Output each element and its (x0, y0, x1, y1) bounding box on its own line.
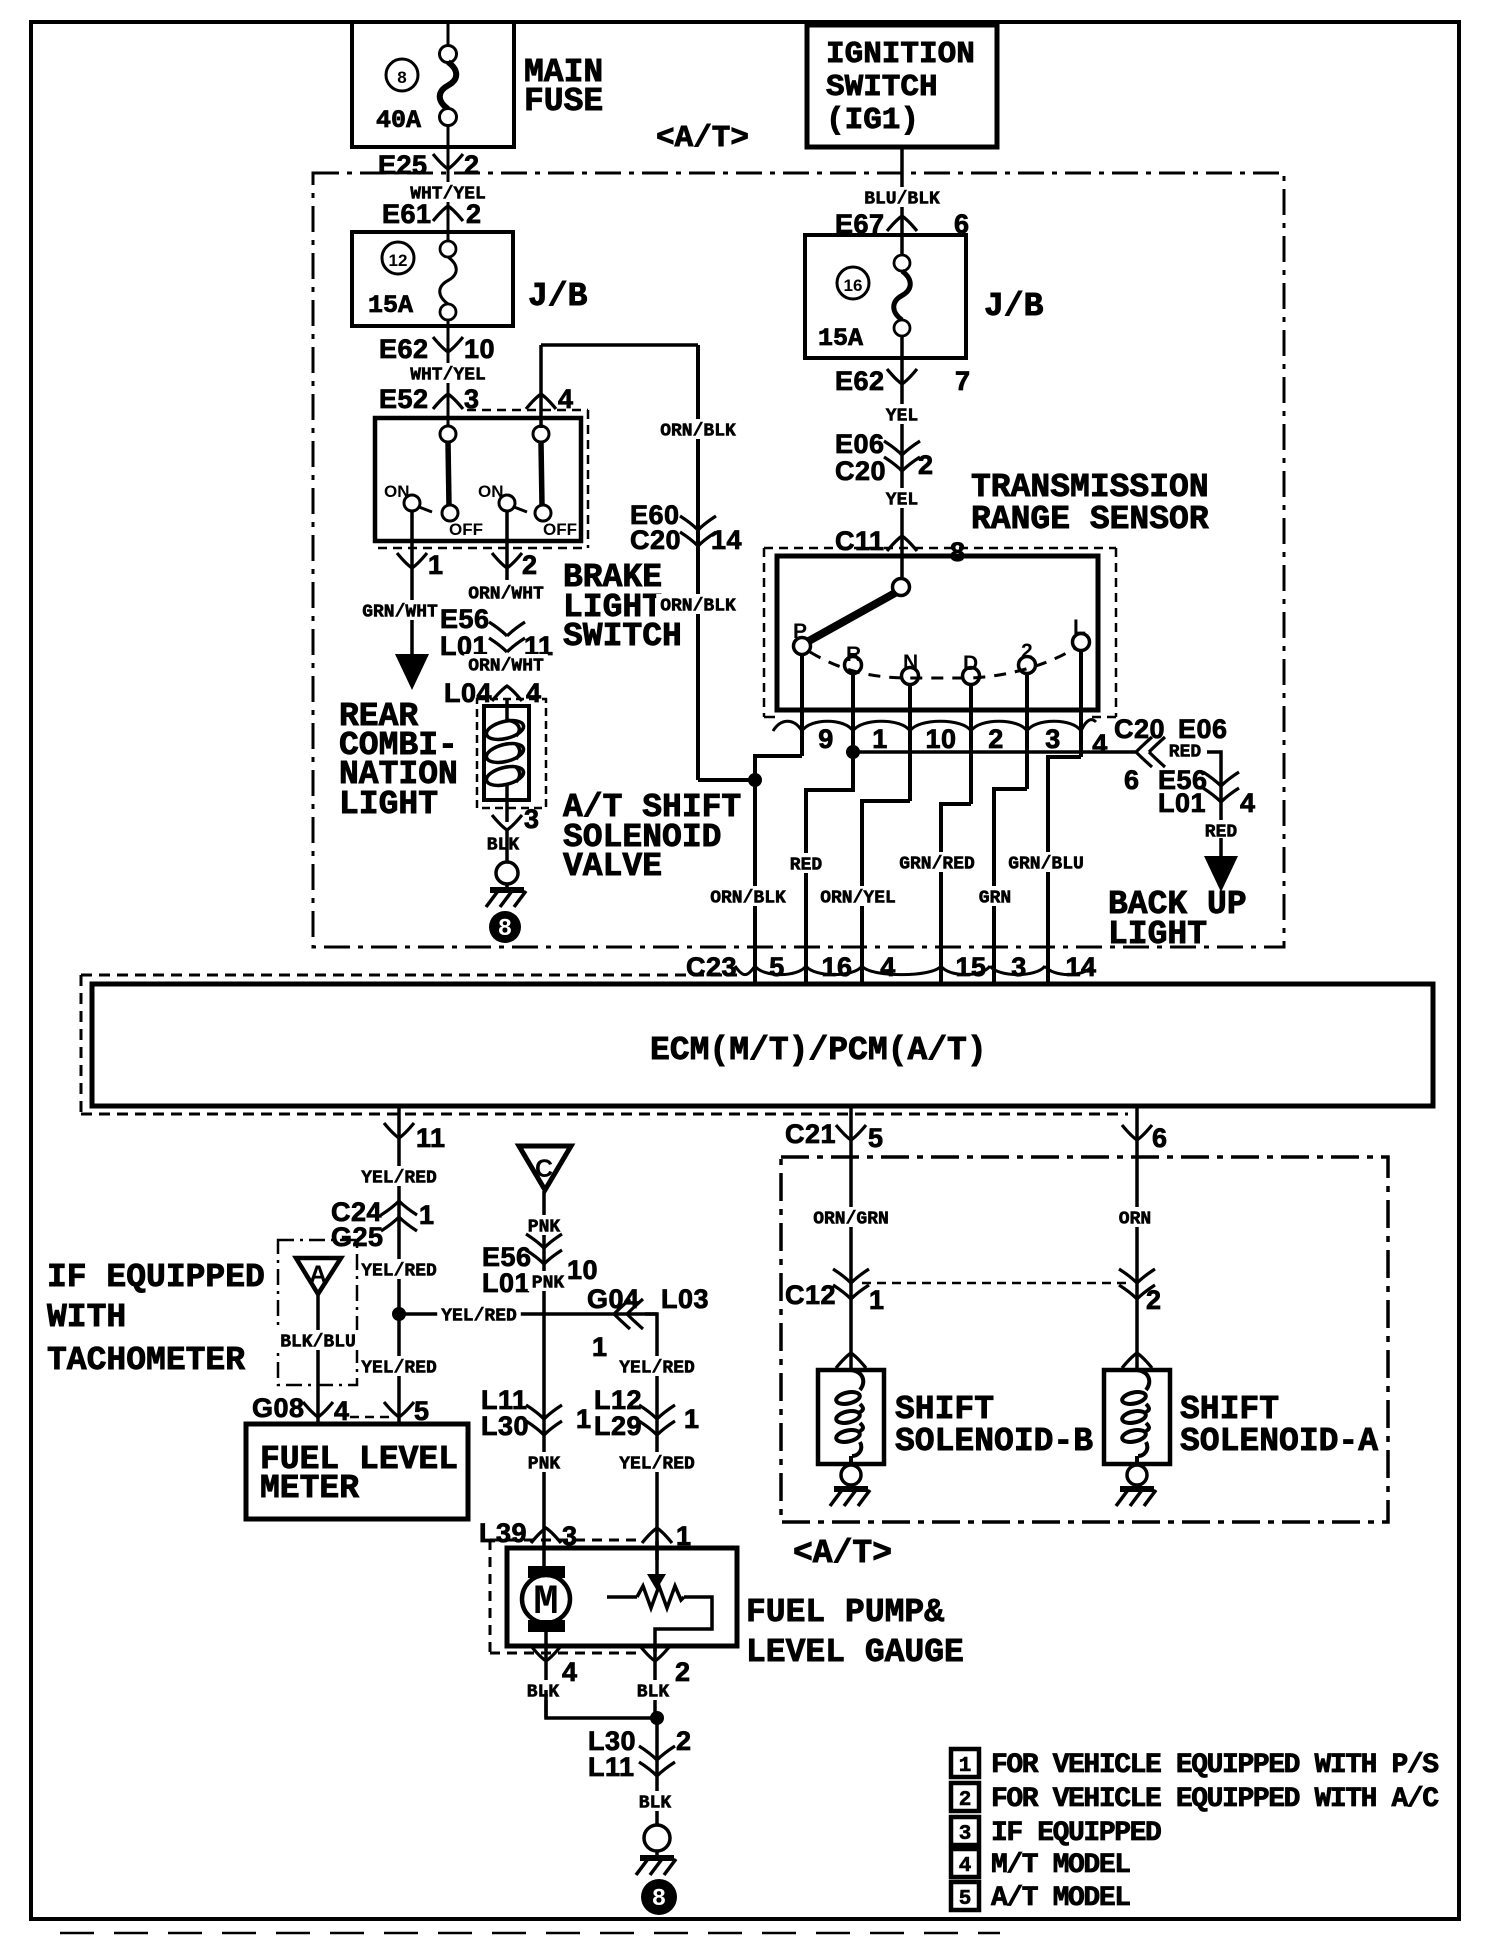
svg-text:LIGHT: LIGHT (1108, 916, 1207, 953)
svg-text:SOLENOID-B: SOLENOID-B (895, 1423, 1093, 1460)
svg-text:8: 8 (652, 1886, 666, 1913)
svg-text:1: 1 (419, 1200, 435, 1230)
A/T dash-dot box (781, 1157, 1388, 1522)
legend item 3 (951, 1817, 979, 1845)
svg-text:E52: E52 (379, 384, 429, 414)
wire label GRN/BLU (1004, 852, 1088, 872)
svg-text:8: 8 (950, 537, 966, 567)
wire pin 10 jog to C23-4 (862, 801, 910, 984)
svg-text:L29: L29 (594, 1411, 642, 1441)
svg-text:L11: L11 (588, 1752, 635, 1782)
svg-text:PNK: PNK (528, 1455, 561, 1475)
solenoid B coil (851, 1370, 863, 1390)
svg-text:M/T MODEL: M/T MODEL (991, 1850, 1130, 1881)
junction dot YEL/RED (392, 1307, 406, 1321)
svg-text:12: 12 (389, 251, 408, 270)
svg-text:VALVE: VALVE (563, 848, 662, 885)
svg-text:15A: 15A (368, 291, 413, 320)
svg-text:IGNITION: IGNITION (826, 37, 975, 72)
svg-text:ORN/BLK: ORN/BLK (710, 889, 786, 909)
wire PNK down (542, 1191, 546, 1566)
wire label BLK (635, 1791, 675, 1811)
wire label GRN (975, 886, 1015, 906)
svg-text:2: 2 (676, 1726, 692, 1756)
wire to arrow (1219, 838, 1223, 858)
svg-text:J/B: J/B (528, 278, 588, 315)
svg-text:TACHOMETER: TACHOMETER (47, 1342, 245, 1379)
svg-text:4: 4 (562, 1657, 578, 1687)
position 2 contact (1019, 657, 1036, 674)
svg-text:5: 5 (868, 1123, 884, 1153)
svg-text:BLK/BLU: BLK/BLU (280, 1333, 356, 1353)
svg-text:3: 3 (1045, 724, 1061, 754)
svg-text:BLK: BLK (527, 1683, 560, 1703)
wire brake switch pin4 branch up and over (539, 345, 543, 428)
svg-text:YEL/RED: YEL/RED (619, 1455, 695, 1475)
svg-text:E06: E06 (835, 429, 885, 459)
wire RED to back up light (853, 750, 1136, 754)
svg-text:P: P (793, 620, 807, 643)
svg-text:C20: C20 (835, 456, 886, 486)
dashed selector arc (810, 648, 1075, 678)
svg-text:<A/T>: <A/T> (656, 121, 749, 156)
svg-text:E56: E56 (440, 604, 490, 634)
svg-text:11: 11 (416, 1123, 446, 1153)
wire label ORN/WHT (464, 654, 548, 674)
svg-text:10: 10 (925, 724, 956, 754)
wire ORN/WHT from switch pin 2 (464, 582, 548, 602)
legend item 2 (951, 1783, 979, 1811)
legend item 1 (951, 1749, 979, 1777)
wire label YEL/RED (615, 1452, 699, 1472)
dashed link C12 (862, 1282, 1126, 1285)
svg-text:2: 2 (466, 199, 482, 229)
svg-text:2: 2 (1021, 640, 1033, 663)
svg-text:ORN/BLK: ORN/BLK (660, 597, 736, 617)
svg-text:5: 5 (959, 1888, 972, 1911)
junction dot BLK (650, 1711, 664, 1725)
svg-text:E62: E62 (379, 334, 429, 364)
wire label ORN/GRN (809, 1207, 893, 1227)
svg-text:16: 16 (821, 952, 852, 982)
svg-text:10: 10 (567, 1255, 598, 1285)
svg-text:16: 16 (844, 276, 863, 295)
svg-text:3: 3 (959, 1823, 972, 1846)
svg-text:OFF: OFF (543, 520, 577, 539)
svg-text:YEL/RED: YEL/RED (361, 1169, 437, 1189)
svg-text:YEL/RED: YEL/RED (441, 1307, 517, 1327)
circled 16 fuse id (837, 267, 869, 299)
junction block J/B fuse box (16) (805, 235, 966, 358)
svg-text:L01: L01 (1158, 788, 1206, 818)
level gauge resistor (607, 1595, 637, 1599)
svg-text:LEVEL GAUGE: LEVEL GAUGE (746, 1634, 964, 1671)
wire J/B to E62 (900, 336, 904, 556)
wire corner down (645, 1314, 657, 1347)
position R contact (845, 657, 862, 674)
svg-text:ORN/WHT: ORN/WHT (468, 657, 544, 677)
svg-text:E61: E61 (382, 199, 432, 229)
position P contact (794, 638, 811, 655)
svg-text:YEL: YEL (886, 491, 918, 511)
wire pin 1 jog to C23-16 (806, 752, 853, 984)
svg-text:SOLENOID-A: SOLENOID-A (1180, 1423, 1378, 1460)
svg-text:6: 6 (1152, 1123, 1168, 1153)
wire label BLK (483, 833, 523, 853)
svg-text:C23: C23 (686, 952, 737, 982)
svg-text:15A: 15A (818, 324, 863, 353)
ground id 8 (641, 1879, 677, 1915)
svg-text:YEL/RED: YEL/RED (361, 1262, 437, 1282)
svg-text:40A: 40A (376, 106, 421, 135)
svg-text:RED: RED (1169, 743, 1202, 763)
transmission range sensor dashed outline (764, 547, 1116, 550)
svg-text:YEL/RED: YEL/RED (619, 1359, 695, 1379)
svg-text:PNK: PNK (528, 1218, 561, 1238)
svg-text:ORN/YEL: ORN/YEL (820, 889, 896, 909)
svg-text:1: 1 (428, 550, 444, 580)
circled 8 fuse id (386, 59, 418, 91)
svg-text:4: 4 (1092, 729, 1108, 759)
wire ECM pin 11 (397, 1106, 401, 1424)
wire label YEL/RED (357, 1356, 441, 1376)
legend item 4 (951, 1849, 979, 1877)
svg-text:5: 5 (769, 952, 785, 982)
svg-text:IF EQUIPPED: IF EQUIPPED (991, 1818, 1161, 1849)
svg-text:L39: L39 (479, 1518, 527, 1548)
svg-text:N: N (903, 651, 918, 674)
wire YEL/RED horizontal (399, 1312, 657, 1316)
svg-text:ON: ON (384, 482, 410, 501)
svg-text:ORN/GRN: ORN/GRN (813, 1210, 889, 1230)
svg-text:L: L (1073, 616, 1086, 639)
tachometer dash-dot outline (278, 1240, 357, 1385)
svg-text:2: 2 (522, 550, 538, 580)
dashed link to pin 5 (350, 1416, 392, 1419)
svg-text:ON: ON (478, 482, 504, 501)
svg-text:GRN/BLU: GRN/BLU (1008, 855, 1084, 875)
svg-text:LIGHT: LIGHT (339, 786, 438, 823)
svg-text:RED: RED (790, 856, 823, 876)
switch S2 right (533, 426, 549, 442)
wire BLK/BLU (316, 1295, 320, 1424)
svg-text:9: 9 (818, 724, 834, 754)
svg-text:SWITCH: SWITCH (826, 70, 938, 105)
svg-text:4: 4 (526, 678, 542, 708)
svg-text:7: 7 (955, 366, 971, 396)
svg-text:L30: L30 (481, 1411, 529, 1441)
svg-text:1: 1 (872, 724, 888, 754)
wire label YEL/RED (357, 1166, 441, 1186)
svg-text:ORN: ORN (1119, 1210, 1151, 1230)
fuse 15A symbol (894, 255, 910, 271)
connector L39 pin 1 (642, 1528, 672, 1543)
svg-text:WHT/YEL: WHT/YEL (410, 366, 486, 386)
svg-text:L04: L04 (444, 678, 492, 708)
wire from top border to fuse (447, 22, 450, 46)
svg-text:R: R (846, 643, 861, 666)
svg-text:A: A (309, 1261, 327, 1289)
svg-text:2: 2 (918, 450, 934, 480)
connector pin 11 (384, 1123, 414, 1138)
valve pin 3 connector (492, 815, 522, 830)
junction block J/B fuse box (12) (352, 232, 513, 326)
fuel pump & level gauge box (507, 1548, 737, 1646)
shift solenoid B box (818, 1370, 884, 1464)
svg-text:2: 2 (988, 724, 1004, 754)
position L contact (1073, 634, 1090, 651)
svg-text:BLK: BLK (487, 836, 520, 856)
ground G2 (644, 1825, 670, 1851)
svg-text:FUEL PUMP&: FUEL PUMP& (746, 1594, 944, 1631)
wire label ORN (1115, 1207, 1155, 1227)
tachometer symbol A (296, 1258, 341, 1294)
svg-text:<A/T>: <A/T> (793, 1535, 892, 1572)
svg-text:SWITCH: SWITCH (563, 618, 682, 655)
wire fuse to connector E25 (447, 125, 450, 205)
diode symbol C (519, 1146, 571, 1190)
svg-text:WITH: WITH (47, 1299, 126, 1336)
svg-text:ORN/WHT: ORN/WHT (468, 585, 544, 605)
svg-text:BLK: BLK (637, 1683, 670, 1703)
svg-text:E62: E62 (835, 366, 885, 396)
main fuse box (352, 22, 514, 147)
svg-text:M: M (533, 1578, 558, 1626)
wire corner to E56/L01 (1207, 752, 1221, 770)
svg-text:1: 1 (959, 1755, 972, 1778)
wire into level gauge with arrow (655, 1541, 659, 1576)
svg-text:4: 4 (959, 1855, 972, 1878)
pump pin 4 connector (544, 1646, 548, 1718)
wire ignition switch down (900, 147, 904, 263)
svg-text:OFF: OFF (449, 520, 483, 539)
switch pin 2 connector (505, 511, 509, 580)
solenoid valve coil L (505, 700, 509, 720)
svg-text:14: 14 (711, 525, 742, 555)
wire label PNK (524, 1452, 564, 1472)
wire ORN/BLK vertical (696, 345, 700, 780)
svg-text:E06: E06 (1178, 714, 1228, 744)
wire label WHT/YEL (406, 182, 490, 202)
wire label YEL (882, 404, 922, 424)
svg-text:1: 1 (684, 1404, 700, 1434)
svg-text:FUSE: FUSE (524, 83, 603, 120)
svg-text:2: 2 (464, 150, 480, 180)
legend item 5 (951, 1882, 979, 1910)
svg-text:GRN/RED: GRN/RED (899, 855, 975, 875)
sensor pin wires (800, 654, 804, 756)
shift solenoid B entry connector (836, 1353, 866, 1368)
ignition switch box (807, 25, 997, 147)
brake light switch dashed outline (467, 409, 588, 412)
selector pivot (900, 556, 904, 580)
svg-text:2: 2 (675, 1657, 691, 1687)
wire label BLK (633, 1680, 673, 1700)
ground wire join (546, 1690, 657, 1718)
ground G1 (496, 862, 518, 884)
wire to ground (505, 830, 509, 862)
svg-text:1: 1 (869, 1285, 885, 1315)
wire pin 2 jog to C23-15 (941, 804, 971, 984)
fuel pump motor M (528, 1566, 565, 1578)
svg-text:ECM(M/T)/PCM(A/T): ECM(M/T)/PCM(A/T) (650, 1032, 987, 1069)
wire label RED (786, 853, 826, 873)
wire label GRN/RED (895, 852, 979, 872)
svg-text:10: 10 (464, 334, 495, 364)
circled 12 fuse id (382, 242, 414, 274)
position N contact (902, 668, 919, 685)
fuse F1 40A symbol (440, 46, 457, 63)
wire label YEL (882, 488, 922, 508)
svg-text:IF EQUIPPED: IF EQUIPPED (47, 1259, 265, 1296)
wire label ORN/YEL (816, 886, 900, 906)
svg-text:3: 3 (524, 804, 540, 834)
svg-text:FOR VEHICLE EQUIPPED WITH P/S: FOR VEHICLE EQUIPPED WITH P/S (991, 1750, 1438, 1781)
brake light switch box (375, 418, 581, 541)
svg-text:C20: C20 (1114, 714, 1165, 744)
wire ECM C21 pin 6 (1135, 1106, 1139, 1370)
wire J/B to E62 (447, 320, 450, 434)
wire label ORN/BLK (706, 886, 790, 906)
svg-text:C12: C12 (785, 1280, 836, 1310)
svg-text:D: D (963, 652, 978, 675)
svg-text:C20: C20 (630, 525, 681, 555)
junction dot pin1/backup feed (846, 745, 860, 759)
svg-text:FOR VEHICLE EQUIPPED WITH A/C: FOR VEHICLE EQUIPPED WITH A/C (991, 1784, 1439, 1815)
wire label BLK (523, 1680, 563, 1700)
svg-text:(IG1): (IG1) (826, 103, 919, 138)
svg-text:8: 8 (397, 68, 406, 87)
switch S1 left (440, 426, 456, 442)
ground id 8 (489, 911, 521, 943)
selector arm (807, 593, 895, 642)
wire label YEL/RED (357, 1259, 441, 1279)
svg-text:4: 4 (880, 952, 896, 982)
wire GRN/WHT to rear combination light (358, 600, 442, 620)
arrow to back up light (1204, 856, 1238, 892)
solenoid A ground (1127, 1465, 1147, 1485)
wire pin 9 jog to C23-5 (755, 756, 802, 984)
fuse 15A symbol (447, 206, 450, 241)
svg-text:BLK: BLK (639, 1794, 672, 1814)
svg-text:C: C (535, 1155, 553, 1183)
svg-text:14: 14 (1065, 952, 1096, 982)
svg-text:L03: L03 (661, 1284, 709, 1314)
junction dot ORN/BLK (748, 773, 762, 787)
wire pin 4 jog to C23-14 (1048, 757, 1081, 984)
pump pin 2 connector (653, 1646, 657, 1718)
svg-text:3: 3 (1011, 952, 1027, 982)
solenoid A coil (1137, 1370, 1149, 1390)
svg-text:1: 1 (592, 1332, 608, 1362)
scan artifact dashed line at bottom (60, 1932, 1000, 1935)
svg-text:METER: METER (260, 1470, 359, 1507)
svg-text:PNK: PNK (532, 1274, 565, 1294)
wire pin 3 jog to C23-3 (994, 789, 1027, 984)
transmission range sensor box (777, 556, 1098, 710)
svg-text:G08: G08 (252, 1393, 305, 1423)
wire ECM C21 pin 5 (849, 1106, 853, 1370)
svg-text:6: 6 (1124, 765, 1140, 795)
svg-text:8: 8 (498, 916, 512, 943)
svg-text:YEL: YEL (886, 407, 918, 427)
position D contact (963, 668, 980, 685)
A/T shift solenoid valve box (484, 706, 529, 800)
svg-text:15: 15 (955, 952, 986, 982)
sensor connector bump row (773, 721, 802, 731)
svg-text:YEL/RED: YEL/RED (361, 1359, 437, 1379)
wire label WHT/YEL (406, 363, 490, 383)
svg-text:GRN/WHT: GRN/WHT (362, 603, 438, 623)
connector E52 pin 4 (526, 394, 556, 409)
svg-text:E25: E25 (378, 150, 428, 180)
svg-text:2: 2 (959, 1789, 972, 1812)
arrow to rear combination light (395, 654, 429, 690)
solenoid B ground (841, 1465, 861, 1485)
wire label RED (1165, 740, 1205, 760)
connector C12 pin 2 (1119, 1269, 1137, 1283)
wire label RED (1201, 820, 1241, 840)
ECM dashed outline (81, 974, 737, 977)
svg-text:BLU/BLK: BLU/BLK (864, 190, 940, 210)
shift solenoid A entry connector (1122, 1353, 1152, 1368)
svg-text:C11: C11 (835, 526, 885, 556)
svg-text:L01: L01 (482, 1268, 530, 1298)
fuel level meter box (246, 1424, 468, 1519)
dash-dot harness boundary box (313, 173, 1284, 947)
svg-text:4: 4 (1240, 788, 1256, 818)
switch pin 1 connector (410, 511, 414, 655)
shift solenoid A box (1104, 1370, 1170, 1464)
svg-text:RANGE SENSOR: RANGE SENSOR (971, 501, 1209, 538)
connector fuel level meter pin 5 (384, 1402, 414, 1417)
svg-text:1: 1 (576, 1404, 592, 1434)
wire label YEL/RED (655, 1347, 659, 1560)
A/T shift solenoid valve dashed outline (477, 699, 546, 808)
svg-text:GRN: GRN (979, 889, 1011, 909)
connector C21 pin 6 (1122, 1125, 1152, 1140)
svg-text:J/B: J/B (984, 288, 1044, 325)
wire label ORN/BLK (656, 594, 740, 614)
fuel pump dashed outline (490, 1539, 640, 1542)
wire label PNK (524, 1215, 564, 1235)
svg-text:A/T MODEL: A/T MODEL (991, 1883, 1130, 1914)
svg-text:C21: C21 (785, 1119, 836, 1149)
ECM(M/T)/PCM(A/T) box (92, 984, 1433, 1106)
wire label BLU/BLK (860, 187, 944, 207)
wire to junction (698, 778, 755, 782)
svg-text:ORN/BLK: ORN/BLK (660, 422, 736, 442)
svg-text:2: 2 (1146, 1285, 1162, 1315)
